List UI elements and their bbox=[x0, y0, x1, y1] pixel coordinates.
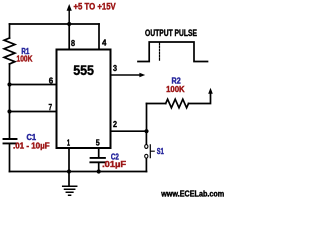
wire left rail upper bbox=[9, 24, 11, 38]
wire pin8 stub bbox=[68, 24, 70, 50]
junction pin6 bbox=[7, 82, 11, 86]
svg-text:7: 7 bbox=[49, 102, 53, 112]
wire left rail lower bbox=[9, 144, 11, 171]
svg-text:6: 6 bbox=[49, 76, 54, 86]
wire supply bbox=[68, 10, 70, 24]
wire pin5 stub bbox=[98, 148, 100, 157]
svg-text:S1: S1 bbox=[157, 146, 164, 156]
junction pin1/ground bbox=[67, 169, 71, 173]
svg-text:.01 - 10µF: .01 - 10µF bbox=[13, 141, 50, 151]
wire left rail mid bbox=[9, 64, 11, 138]
junction supply/pin8 bbox=[67, 22, 71, 26]
wire pin7 bbox=[10, 111, 57, 113]
svg-text:100K: 100K bbox=[166, 84, 185, 94]
wire R2 branch vertical bbox=[146, 104, 148, 132]
wire switch top bbox=[145, 131, 147, 144]
arrow R2 to V+ bbox=[208, 88, 213, 94]
junction C2 bbox=[97, 169, 101, 173]
svg-text:3: 3 bbox=[113, 63, 117, 73]
svg-text:5: 5 bbox=[96, 137, 100, 147]
wire switch bottom bbox=[145, 158, 147, 171]
svg-text:.01µF: .01µF bbox=[102, 159, 126, 169]
waveform dotted edge bbox=[159, 43, 161, 61]
wire pin6 bbox=[10, 84, 57, 86]
wire pin1 stub bbox=[68, 148, 70, 172]
svg-text:8: 8 bbox=[71, 38, 75, 48]
wire pin3 bbox=[111, 74, 141, 76]
junction pin7 bbox=[7, 109, 11, 113]
svg-text:4: 4 bbox=[102, 38, 107, 48]
svg-text:555: 555 bbox=[73, 63, 94, 78]
wire pin4 stub bbox=[98, 24, 100, 50]
arrow supply bbox=[67, 4, 72, 11]
svg-text:OUTPUT PULSE: OUTPUT PULSE bbox=[145, 28, 197, 38]
arrow pin3 output bbox=[139, 73, 145, 78]
wire R2 left lead bbox=[147, 103, 166, 105]
wire C2 lower stub bbox=[98, 163, 100, 171]
ground bbox=[68, 172, 70, 186]
wire bottom rail bbox=[10, 171, 147, 173]
junction pin2/R2 bbox=[144, 129, 148, 133]
wire R2 right lead bbox=[189, 94, 211, 104]
svg-text:+5 TO +15V: +5 TO +15V bbox=[74, 1, 117, 12]
svg-text:2: 2 bbox=[113, 119, 117, 129]
svg-text:100K: 100K bbox=[17, 53, 34, 63]
resistor R2 bbox=[166, 99, 189, 108]
svg-text:1: 1 bbox=[67, 137, 70, 147]
switch S1 actuator bbox=[150, 145, 154, 158]
capacitor C2 bbox=[90, 158, 105, 162]
svg-text:www.ECELab.com: www.ECELab.com bbox=[160, 189, 224, 198]
resistor R1 bbox=[4, 38, 15, 64]
op-amp U1 box (555 IC) bbox=[57, 50, 111, 149]
capacitor C1 bbox=[4, 139, 17, 143]
wire pin2 bbox=[111, 130, 147, 132]
switch S1 contacts bbox=[145, 145, 148, 149]
waveform output pulse bbox=[138, 42, 208, 62]
wire top rail bbox=[10, 23, 100, 25]
